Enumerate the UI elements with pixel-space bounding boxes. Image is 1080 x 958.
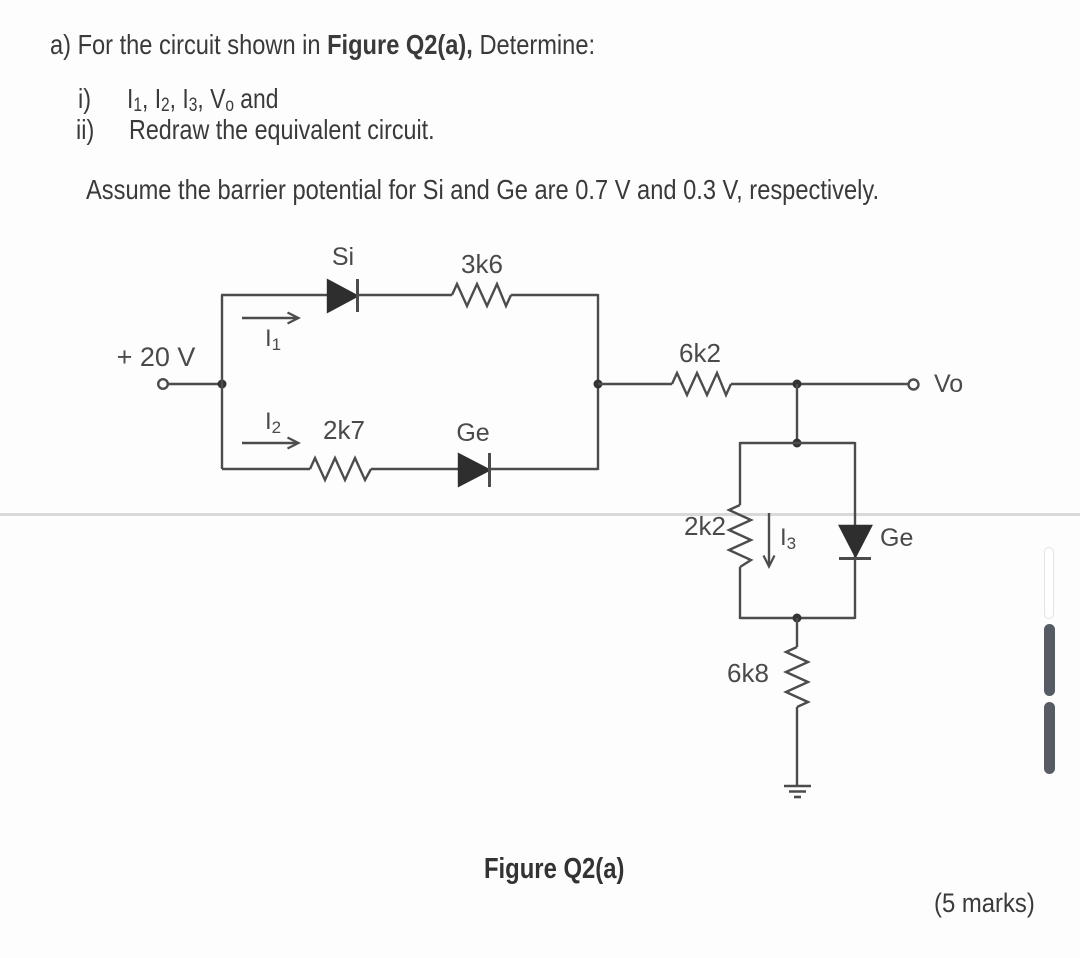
label I3 [780,524,796,553]
assumption sentence [86,174,879,206]
current arrow I3 [764,513,775,567]
wire box left edge upper [739,442,741,505]
wire top branch right [511,294,598,296]
wire 6k8 to ground [796,707,798,786]
scrollbar artifact: dark bar 2 [1044,702,1055,774]
wire left rail [221,295,223,469]
wire between Si and 3k6 [357,294,452,296]
svg-text:6k2: 6k2 [679,338,721,368]
current arrow I2 [242,438,299,449]
wire terminal to node [169,383,223,385]
svg-text:I2: I2 [265,408,281,437]
svg-text:+ 20 V: + 20 V [117,342,196,372]
label I1 [265,325,281,354]
list item ii [76,114,94,146]
label 2k2 [684,511,726,541]
question line a) [50,29,595,61]
marks [934,888,1035,919]
input terminal circle [158,379,168,389]
wire bottom branch left [222,468,310,470]
list item i [78,83,91,115]
label Vo [934,370,963,398]
node: box top [793,439,802,448]
wire top branch left [221,294,328,296]
label 3k6 [461,249,503,279]
resistor 2k7 [310,458,371,480]
label Ge bottom branch [456,419,489,447]
diode Ge bottom branch [459,453,490,487]
svg-text:I3: I3 [780,524,796,553]
svg-text:Si: Si [332,243,354,271]
node: right rail junction [594,380,603,389]
output terminal Vo [909,380,919,390]
svg-text:2k7: 2k7 [323,415,365,445]
scan divider line [0,513,1080,516]
wire box top edge [740,442,855,444]
wire stub down to box [796,384,798,443]
diode Ge vertical [839,526,871,559]
label Ge vertical [880,524,913,552]
label Si [332,243,354,271]
wire right rail [597,294,599,470]
scrollbar artifact: white bar [1044,547,1054,619]
svg-text:6k8: 6k8 [727,658,769,688]
svg-text:3k6: 3k6 [461,249,503,279]
node: Vo branch junction [793,380,802,389]
label 6k8 [727,658,769,688]
wire stub to 6k8 [796,618,798,647]
wire right rail to 6k2 [598,383,672,385]
svg-text:Ge: Ge [456,419,489,447]
svg-text:Vo: Vo [934,370,963,398]
svg-text:Ge: Ge [880,524,913,552]
resistor 2k2 [729,505,751,567]
ground [784,786,811,797]
wire 6k2 to Vo [731,383,908,385]
+20V source label [117,342,196,372]
wire box bottom edge [740,617,855,619]
resistor 3k6 [452,284,511,306]
diode Si [328,279,358,312]
wire bottom branch right [489,468,598,470]
node: input junction [218,380,227,389]
wire between 2k7 and Ge [371,468,459,470]
label I2 [265,408,281,437]
current arrow I1 [242,313,299,324]
wire box right edge [854,442,856,619]
node: box bottom [793,614,802,623]
label 2k7 [323,415,365,445]
figure caption [484,853,624,886]
svg-text:2k2: 2k2 [684,511,726,541]
scrollbar artifact: dark bar 1 [1044,624,1055,696]
resistor 6k2 [672,373,731,395]
wire box left edge lower [739,567,741,619]
label 6k2 [679,338,721,368]
svg-text:I1: I1 [265,325,281,354]
resistor 6k8 [786,647,808,707]
